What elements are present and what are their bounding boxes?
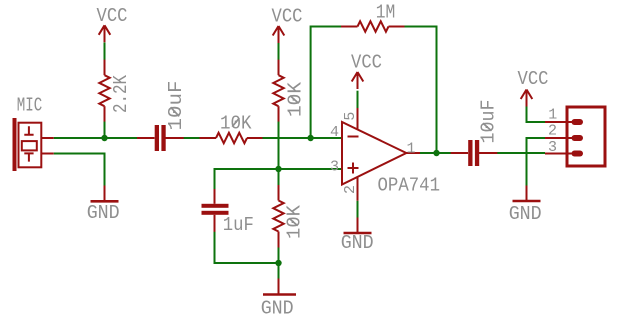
- svg-text:1: 1: [407, 141, 416, 158]
- svg-text:10K: 10K: [285, 81, 307, 117]
- wire R 10K series to op-amp inverting input: [262, 137, 342, 139]
- svg-text:10K: 10K: [284, 204, 306, 239]
- op-amp OPA741: [342, 108, 420, 201]
- wire node B to op-amp non-inverting input: [279, 168, 343, 170]
- svg-text:10uF: 10uF: [477, 100, 499, 144]
- svg-text:GND: GND: [509, 203, 542, 225]
- ground under op-amp: [344, 218, 372, 234]
- label 10K upper: [285, 81, 307, 117]
- junction node A: [101, 135, 107, 141]
- vcc symbol VCC3 above op-amp: [352, 72, 364, 89]
- vcc symbol VCC2: [273, 26, 285, 43]
- wire node B to R 10K lower: [278, 169, 280, 186]
- svg-text:VCC: VCC: [272, 6, 303, 28]
- svg-text:10K: 10K: [220, 113, 252, 135]
- junction node D output: [433, 150, 439, 156]
- capacitor 1uF: [202, 189, 229, 232]
- svg-text:GND: GND: [341, 232, 374, 254]
- wire R 10K upper to node B: [278, 121, 280, 169]
- ground under mic: [91, 186, 119, 202]
- wire VCC4 to connector pin 1: [527, 106, 546, 122]
- svg-text:VCC: VCC: [518, 68, 549, 90]
- capacitor 10uF input: [137, 125, 184, 151]
- svg-text:10uF: 10uF: [165, 81, 187, 131]
- wire VCC1 to R 2.2K: [104, 42, 106, 60]
- wire R 2.2K to node A: [104, 121, 106, 138]
- wire feedback riser right: [405, 27, 437, 154]
- svg-text:VCC: VCC: [97, 5, 128, 27]
- ground under connector: [513, 186, 541, 202]
- wire op-amp VCC pin 5: [357, 91, 359, 108]
- wire node C to ground: [278, 263, 280, 279]
- microphone MIC: [13, 118, 54, 171]
- vcc symbol VCC4: [521, 90, 533, 107]
- resistor 10K lower: [273, 185, 283, 248]
- wire feedback riser left: [311, 27, 341, 139]
- wire R 10K lower to node C: [278, 247, 280, 263]
- resistor 10K upper: [273, 60, 283, 122]
- junction feedback node: [307, 135, 313, 141]
- svg-text:3: 3: [330, 159, 339, 176]
- svg-text:GND: GND: [87, 202, 120, 224]
- svg-text:2: 2: [342, 185, 359, 194]
- svg-text:GND: GND: [261, 298, 294, 320]
- junction node B: [275, 166, 281, 172]
- svg-text:1M: 1M: [376, 2, 396, 24]
- label 10K lower: [284, 204, 306, 239]
- vcc symbol VCC1: [99, 25, 111, 42]
- svg-text:2: 2: [548, 123, 557, 140]
- svg-text:VCC: VCC: [351, 52, 382, 74]
- svg-text:1: 1: [548, 106, 557, 123]
- wire mic bottom to ground corner: [54, 154, 105, 187]
- wire node D to C 10uF output: [437, 152, 452, 154]
- label 10uF input: [165, 81, 187, 131]
- resistor 2.2K: [99, 60, 109, 122]
- junction node C: [275, 260, 281, 266]
- svg-text:2.2K: 2.2K: [110, 75, 132, 113]
- wire VCC2 to R 10K upper: [278, 42, 280, 60]
- connector header: [545, 107, 605, 166]
- svg-text:5: 5: [342, 112, 359, 121]
- wire op-amp output to node D: [420, 152, 437, 154]
- svg-text:OPA741: OPA741: [378, 175, 441, 197]
- svg-text:MIC: MIC: [17, 95, 43, 117]
- label 10uF output: [477, 100, 499, 144]
- wire node A to C 10uF input: [105, 137, 138, 139]
- wire op-amp pin 2 to ground: [357, 201, 359, 218]
- resistor 10K series: [200, 133, 263, 143]
- label 10K series: [220, 113, 252, 135]
- ground under node C: [263, 279, 296, 295]
- capacitor 10uF output: [451, 140, 498, 166]
- wire node B to C 1uF branch: [215, 169, 279, 190]
- wire connector pin 2 to ground: [527, 138, 546, 186]
- wire C 10uF output to connector pin 3: [497, 152, 545, 154]
- wire C 10uF to R 10K series: [184, 137, 201, 139]
- wire C 1uF to node C: [215, 232, 279, 264]
- svg-text:4: 4: [330, 124, 339, 141]
- wire mic top to node A: [54, 137, 105, 139]
- svg-text:3: 3: [548, 139, 557, 156]
- resistor 1M feedback: [341, 21, 405, 31]
- svg-text:1uF: 1uF: [223, 214, 254, 236]
